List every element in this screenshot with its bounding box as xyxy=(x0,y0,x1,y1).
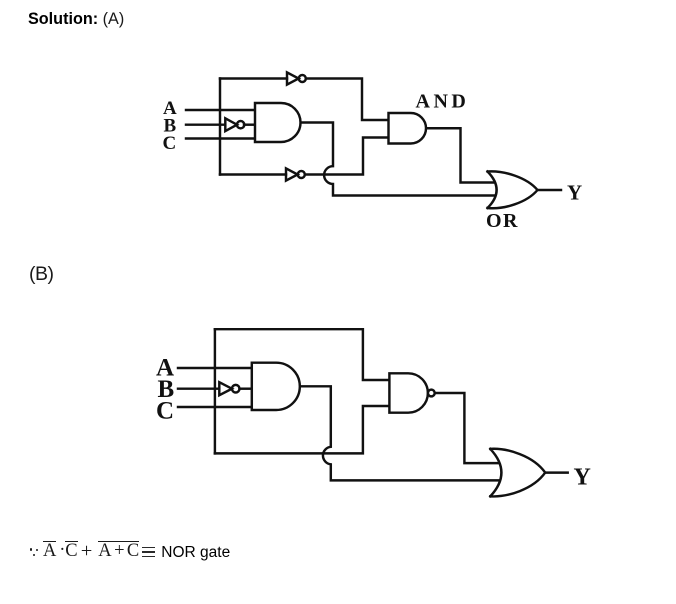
wire: top branch to NAND2 pin1 xyxy=(215,329,390,380)
NAND gate 2 bubble (B) xyxy=(428,390,435,397)
wire: OR2 output xyxy=(545,471,568,473)
NOR gate text xyxy=(161,545,230,561)
svg-text:AND: AND xyxy=(416,91,470,113)
NOT gate top branch (triangle) xyxy=(287,72,299,84)
wire: input C to AND1 pin3 xyxy=(186,137,255,139)
conclusion formula xyxy=(30,539,260,565)
wire: input B to NOT-B1 xyxy=(186,123,225,125)
wire: vertical trunk tapping A and C (B) xyxy=(214,329,216,453)
A-bar xyxy=(43,541,56,561)
svg-text:OR: OR xyxy=(486,210,519,232)
wire: NOT-B1 output to AND1 pin2 xyxy=(244,123,255,125)
wire: G1 output with hop over bottom wire xyxy=(300,386,500,480)
plus xyxy=(81,541,93,562)
OR gate 1 outline xyxy=(488,171,538,208)
wire: OR1 output xyxy=(538,189,562,191)
AND gate 1 (3-input) xyxy=(255,103,301,142)
NOT gate top bubble xyxy=(299,75,306,82)
AND-shaped gate G1 (B) xyxy=(252,363,300,410)
NOT gate on input B (triangle) xyxy=(225,118,237,131)
svg-text:Y: Y xyxy=(567,181,582,205)
OR gate 2 body (B) xyxy=(490,449,545,497)
wire: NOT-B2 output to G1 pin2 xyxy=(240,387,252,389)
wire: NOT-T output to AND2 pin1 xyxy=(306,79,389,121)
wire: NOT-Bot output to AND2 pin2 xyxy=(305,138,389,175)
svg-text:Y: Y xyxy=(574,464,591,490)
dot operator xyxy=(59,541,65,560)
wire: AND2 output down to OR1 pin1 xyxy=(426,128,497,182)
wire: top branch to NOT-T xyxy=(220,77,287,79)
wire: input C to G1 pin3 xyxy=(178,406,252,408)
NOT gate on input B (triangle) (B) xyxy=(219,382,232,395)
C-bar xyxy=(65,541,77,561)
wire: bottom branch to NOT-Bot xyxy=(220,173,286,175)
NOT gate bottom branch (triangle) xyxy=(286,168,298,180)
AND gate 2 xyxy=(389,113,427,144)
wire: AND1 output with hop over bottom wire xyxy=(301,123,498,196)
wire: input A to G1 pin1 xyxy=(178,367,252,369)
svg-text:C: C xyxy=(156,397,174,424)
identical-to xyxy=(142,547,155,558)
NOT gate bottom bubble xyxy=(298,171,305,178)
NOT gate B bubble (B) xyxy=(232,385,240,393)
NOT gate B bubble xyxy=(237,121,244,128)
svg-text:C: C xyxy=(163,133,177,154)
wire: bottom branch to NAND2 pin2 xyxy=(215,406,390,453)
label: (B) xyxy=(29,263,54,286)
wire: NAND2 output down to OR2 pin1 xyxy=(435,393,500,463)
because symbol xyxy=(30,539,39,557)
OR gate 2 outline (B) xyxy=(490,449,545,497)
wire: input B to NOT-B2 xyxy=(178,387,219,389)
A+C-bar xyxy=(98,541,139,561)
NAND gate 2 body (B) xyxy=(389,373,428,412)
OR gate 1 body xyxy=(488,171,538,208)
wire: vertical trunk tapping A and C xyxy=(219,79,221,175)
title: Solution: (A) xyxy=(28,10,124,29)
wire: input A to AND1 pin1 xyxy=(186,109,255,111)
